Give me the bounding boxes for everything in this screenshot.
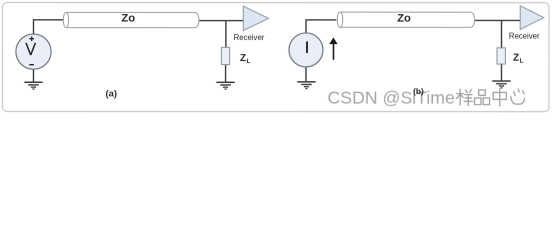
svg-text:Zo: Zo	[121, 13, 135, 25]
svg-text:L: L	[520, 59, 524, 65]
svg-text:CSDN @SiTime: CSDN @SiTime	[327, 88, 455, 108]
svg-text:Receiver: Receiver	[234, 33, 265, 42]
svg-text:Receiver: Receiver	[509, 32, 540, 41]
svg-text:(a): (a)	[105, 89, 117, 100]
svg-text:Z: Z	[513, 53, 519, 64]
svg-text:L: L	[247, 59, 251, 65]
svg-text:(b): (b)	[413, 86, 424, 96]
svg-text:Zo: Zo	[397, 13, 411, 25]
svg-text:Z: Z	[240, 53, 246, 64]
